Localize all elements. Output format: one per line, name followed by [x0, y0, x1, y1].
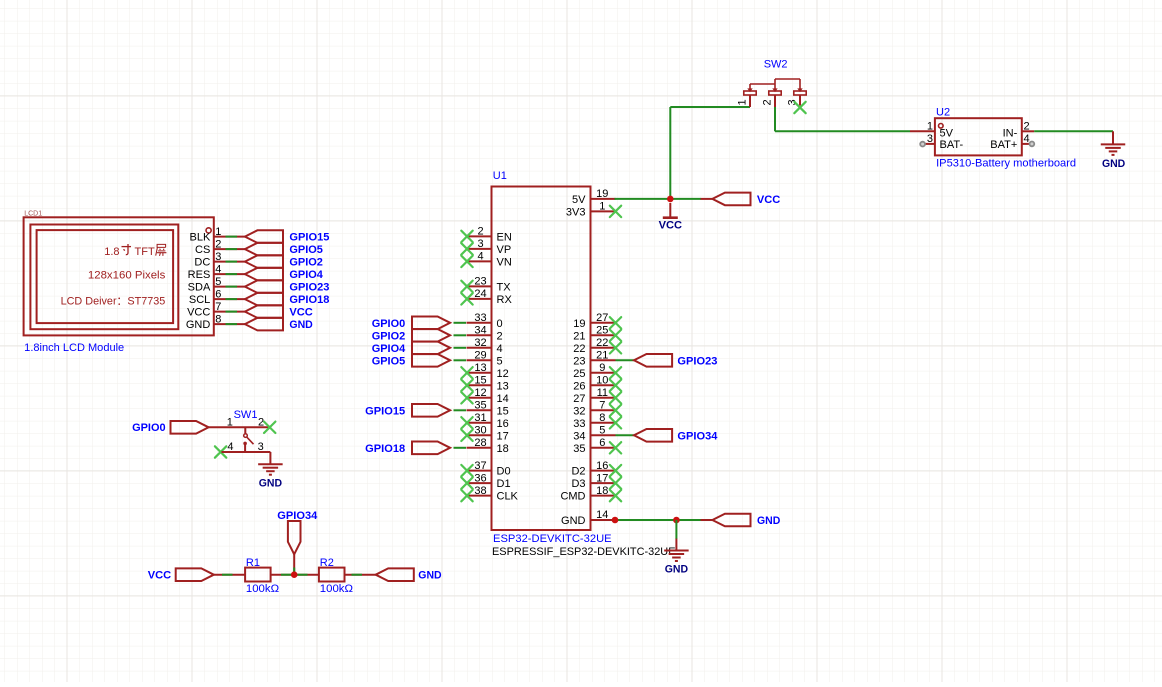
svg-text:D1: D1 — [497, 478, 511, 490]
svg-text:GPIO23: GPIO23 — [289, 282, 329, 294]
net flag VCC — [148, 568, 214, 581]
svg-text:BAT+: BAT+ — [990, 139, 1017, 151]
wire junction up to SW2 pin 1 — [669, 107, 671, 199]
wire 5V pin to VCC flag — [615, 198, 702, 200]
svg-text:36: 36 — [474, 472, 486, 484]
U1 pin 7 (32) — [573, 400, 621, 418]
svg-text:5: 5 — [497, 355, 503, 367]
svg-text:DC: DC — [194, 257, 210, 269]
wire R1 to junction — [271, 574, 295, 576]
svg-text:VCC: VCC — [148, 570, 171, 582]
svg-text:21: 21 — [596, 350, 608, 362]
svg-text:GPIO0: GPIO0 — [132, 422, 166, 434]
IC U2 IP5310 body — [935, 118, 1022, 155]
wire R2 to GND flag — [345, 574, 376, 576]
U1 pin 25 (21) — [573, 325, 621, 343]
svg-text:RES: RES — [188, 269, 211, 281]
svg-text:GPIO0: GPIO0 — [372, 318, 406, 330]
net flag GPIO5 — [372, 354, 450, 367]
U2 pin 2 (IN-) — [1003, 120, 1035, 139]
svg-text:19: 19 — [573, 318, 585, 330]
junction at U1 GND pin — [612, 517, 619, 524]
wire junction to R2 — [294, 574, 319, 576]
net flag GPIO18 — [245, 293, 330, 306]
switch SW2 — [744, 79, 806, 107]
svg-text:38: 38 — [474, 485, 486, 497]
svg-text:GPIO4: GPIO4 — [372, 343, 406, 355]
svg-text:GPIO2: GPIO2 — [372, 330, 406, 342]
svg-text:17: 17 — [497, 430, 509, 442]
LCD1 pin 4 (RES) — [188, 263, 245, 281]
svg-text:GPIO2: GPIO2 — [289, 257, 323, 269]
U2 pin 1 indicator circle — [939, 124, 944, 129]
U1 pin 38 (CLK) — [461, 485, 518, 503]
svg-text:15: 15 — [474, 375, 486, 387]
svg-text:26: 26 — [573, 380, 585, 392]
net flag GPIO2 — [372, 329, 450, 342]
wire — [454, 409, 467, 411]
svg-text:34: 34 — [573, 430, 585, 442]
LCD1 pin 1 indicator circle — [206, 228, 211, 233]
svg-text:5V: 5V — [572, 194, 586, 206]
U1 pin 12 (14) — [461, 387, 508, 405]
ground symbol under SW1 — [258, 452, 283, 489]
svg-text:21: 21 — [573, 330, 585, 342]
net flag VCC — [245, 305, 313, 318]
U1 pin 28 (18) — [467, 437, 509, 455]
wire GPIO0 to SW1 — [209, 426, 268, 428]
wire GND pin to GND flag — [614, 519, 701, 521]
svg-text:LCD1: LCD1 — [24, 211, 42, 218]
net flag GPIO2 — [245, 255, 323, 268]
svg-text:SW2: SW2 — [764, 59, 788, 71]
U2 pin 1 (5V) — [910, 120, 954, 139]
svg-text:CLK: CLK — [497, 491, 519, 503]
svg-text:7: 7 — [599, 400, 605, 412]
net flag GND — [712, 514, 780, 527]
svg-text:EN: EN — [497, 231, 512, 243]
wire U2 IN- to ground — [1034, 130, 1113, 132]
svg-text:VCC: VCC — [757, 194, 780, 206]
svg-text:2: 2 — [1024, 120, 1030, 132]
wire — [226, 298, 238, 300]
net flag GPIO23 — [634, 354, 717, 367]
svg-text:14: 14 — [497, 393, 509, 405]
wire down to ground — [675, 520, 677, 539]
U1 pin 32 (4) — [467, 337, 503, 355]
U1 pin 8 (33) — [573, 412, 621, 430]
svg-text:8: 8 — [215, 313, 221, 325]
svg-text:100kΩ: 100kΩ — [320, 583, 353, 595]
U1 pin 24 (RX) — [461, 288, 512, 306]
wire — [454, 447, 467, 449]
svg-text:6: 6 — [215, 288, 221, 300]
wire — [226, 286, 238, 288]
net flag GPIO4 — [372, 342, 450, 355]
svg-text:13: 13 — [497, 380, 509, 392]
U1 pin 1 (3V3) — [566, 201, 621, 219]
U1 pin 37 (D0) — [461, 460, 510, 478]
U1 pin 33 (0) — [467, 312, 503, 330]
U1 pin 18 (CMD) — [560, 485, 621, 503]
svg-text:D3: D3 — [571, 478, 585, 490]
svg-text:17: 17 — [596, 472, 608, 484]
svg-text:GND: GND — [665, 564, 688, 576]
svg-text:1: 1 — [227, 416, 233, 428]
wire SW2 pin2 down — [774, 107, 776, 131]
net flag GPIO23 — [245, 280, 330, 293]
svg-text:33: 33 — [573, 418, 585, 430]
U1 pin 4 (VN) — [461, 251, 512, 269]
svg-text:23: 23 — [573, 355, 585, 367]
svg-text:GND: GND — [289, 319, 312, 331]
svg-text:16: 16 — [596, 460, 608, 472]
svg-text:3: 3 — [477, 238, 483, 250]
svg-text:32: 32 — [474, 337, 486, 349]
svg-text:CMD: CMD — [560, 491, 585, 503]
svg-text:24: 24 — [474, 288, 486, 300]
svg-text:GND: GND — [757, 515, 780, 527]
svg-text:1: 1 — [215, 226, 221, 238]
svg-text:30: 30 — [474, 425, 486, 437]
net flag GPIO5 — [245, 243, 323, 256]
U1 pin 9 (25) — [573, 362, 621, 380]
svg-text:22: 22 — [596, 337, 608, 349]
svg-text:27: 27 — [573, 393, 585, 405]
svg-text:23: 23 — [474, 276, 486, 288]
U1 pin 36 (D1) — [461, 472, 510, 490]
svg-text:GND: GND — [418, 570, 441, 582]
svg-text:GPIO34: GPIO34 — [677, 430, 718, 442]
U1 pin 17 (D3) — [571, 472, 621, 490]
net flag GPIO34 vertical — [277, 510, 318, 575]
U1 pin 6 (35) — [573, 437, 621, 455]
LCD1 pin 1 (BLK) — [190, 226, 245, 244]
svg-text:D2: D2 — [571, 466, 585, 478]
svg-text:VCC: VCC — [187, 307, 210, 319]
svg-text:8: 8 — [599, 412, 605, 424]
svg-text:BLK: BLK — [190, 232, 211, 244]
U1 pin 21 (23) — [573, 350, 615, 368]
svg-text:12: 12 — [497, 368, 509, 380]
resistor R1 — [245, 557, 279, 595]
LCD1 pin 6 (SCL) — [189, 288, 245, 306]
svg-text:VN: VN — [497, 256, 512, 268]
svg-text:VP: VP — [497, 244, 512, 256]
svg-text:GPIO5: GPIO5 — [372, 355, 406, 367]
U1 pin 10 (26) — [573, 375, 621, 393]
svg-text:37: 37 — [474, 460, 486, 472]
svg-text:TFT: TFT — [135, 246, 155, 258]
svg-text:LCD Deiver：ST7735: LCD Deiver：ST7735 — [61, 295, 166, 307]
svg-text:35: 35 — [573, 443, 585, 455]
U2 pin 4 (BAT+) — [990, 133, 1034, 151]
junction R divider — [291, 571, 298, 578]
svg-text:GND: GND — [561, 515, 586, 527]
svg-text:SW1: SW1 — [234, 409, 258, 421]
net flag GPIO15 — [245, 230, 330, 243]
svg-text:18: 18 — [497, 443, 509, 455]
svg-text:6: 6 — [599, 437, 605, 449]
svg-text:18: 18 — [596, 485, 608, 497]
svg-text:1: 1 — [599, 201, 605, 213]
svg-text:27: 27 — [596, 312, 608, 324]
junction VCC node — [667, 196, 674, 203]
svg-text:VCC: VCC — [659, 219, 682, 231]
svg-text:35: 35 — [474, 400, 486, 412]
net flag VCC — [712, 193, 780, 206]
svg-text:GND: GND — [1102, 158, 1125, 170]
net flag GPIO0 — [372, 317, 450, 330]
svg-text:D0: D0 — [497, 466, 511, 478]
wire — [226, 236, 238, 238]
svg-text:IP5310-Battery motherboard: IP5310-Battery motherboard — [936, 158, 1076, 170]
svg-text:IN-: IN- — [1003, 127, 1018, 139]
svg-text:ESPRESSIF_ESP32-DEVKITC-32UE: ESPRESSIF_ESP32-DEVKITC-32UE — [492, 546, 676, 558]
svg-text:GND: GND — [259, 477, 282, 489]
SW1 bottom wire — [222, 451, 271, 453]
LCD1 pin 5 (SDA) — [188, 276, 245, 294]
LCD1 pin 2 (CS) — [195, 238, 245, 256]
svg-text:GPIO18: GPIO18 — [365, 443, 405, 455]
svg-text:SCL: SCL — [189, 294, 210, 306]
no-connect SW1 pin 2 — [264, 422, 275, 433]
resistor R2 — [319, 557, 353, 595]
U1 pin 35 (15) — [467, 400, 509, 418]
net flag GPIO34 — [634, 429, 718, 442]
svg-text:25: 25 — [573, 368, 585, 380]
wire — [226, 261, 238, 263]
net flag GND — [376, 568, 442, 581]
svg-text:R1: R1 — [246, 557, 260, 569]
no-connect SW1 pin 4 — [215, 446, 226, 457]
svg-text:0: 0 — [497, 318, 503, 330]
svg-text:19: 19 — [596, 188, 608, 200]
U1 pin 27 (19) — [573, 312, 621, 330]
svg-text:2: 2 — [762, 99, 774, 105]
svg-text:12: 12 — [474, 387, 486, 399]
wire — [616, 359, 636, 361]
svg-text:14: 14 — [596, 509, 608, 521]
wire — [454, 359, 467, 361]
wire — [454, 347, 467, 349]
wire — [226, 273, 238, 275]
svg-text:15: 15 — [497, 405, 509, 417]
svg-text:1: 1 — [927, 120, 933, 132]
svg-text:U1: U1 — [493, 170, 507, 182]
svg-text:2: 2 — [215, 238, 221, 250]
svg-text:GPIO18: GPIO18 — [289, 294, 329, 306]
svg-text:33: 33 — [474, 312, 486, 324]
U1 pin 11 (27) — [573, 387, 621, 405]
svg-text:RX: RX — [497, 294, 513, 306]
svg-text:4: 4 — [497, 343, 503, 355]
U1 pin 31 (16) — [461, 412, 508, 430]
svg-text:7: 7 — [215, 301, 221, 313]
label 1.8 cun TFT screen — [104, 244, 166, 258]
wire — [616, 434, 636, 436]
svg-text:5: 5 — [215, 276, 221, 288]
IC U1 ESP32-DEVKITC-32UE body — [492, 187, 591, 531]
svg-text:16: 16 — [497, 418, 509, 430]
svg-text:TX: TX — [497, 281, 512, 293]
net flag GPIO0 — [132, 421, 209, 434]
power symbol VCC — [659, 203, 682, 231]
U1 pin 2 (EN) — [461, 226, 512, 244]
wire — [226, 248, 238, 250]
U1 pin 23 (TX) — [461, 276, 511, 294]
U1 pin 30 (17) — [461, 425, 508, 443]
U1 pin 19 (5V) — [572, 188, 615, 206]
svg-text:3: 3 — [215, 251, 221, 263]
svg-text:100kΩ: 100kΩ — [246, 583, 279, 595]
svg-text:1: 1 — [737, 99, 749, 105]
svg-text:10: 10 — [596, 375, 608, 387]
no-connect SW2 pin 3 — [794, 102, 805, 113]
svg-text:GPIO4: GPIO4 — [289, 269, 323, 281]
LCD1 pin 7 (VCC) — [187, 301, 245, 319]
wire SW2 pin1 horizontal — [670, 106, 750, 108]
LCD1 pin 3 (DC) — [194, 251, 245, 269]
svg-text:R2: R2 — [320, 557, 334, 569]
svg-text:3: 3 — [927, 133, 933, 145]
wire — [226, 323, 238, 325]
net flag GPIO15 — [365, 404, 450, 417]
U1 pin 22 (22) — [573, 337, 621, 355]
net flag GND — [245, 318, 313, 331]
svg-text:BAT-: BAT- — [940, 139, 964, 151]
svg-text:4: 4 — [477, 251, 483, 263]
U1 pin 14 (GND) — [561, 509, 615, 527]
wire SW2 pin2 to U2 5V — [775, 130, 910, 132]
svg-text:2: 2 — [497, 330, 503, 342]
svg-text:GPIO34: GPIO34 — [277, 510, 318, 522]
svg-text:U2: U2 — [936, 107, 950, 119]
U1 pin 5 (34) — [573, 425, 615, 443]
svg-text:13: 13 — [474, 362, 486, 374]
svg-text:29: 29 — [474, 350, 486, 362]
svg-text:5: 5 — [599, 425, 605, 437]
svg-text:11: 11 — [597, 387, 608, 399]
push button SW1 — [243, 427, 253, 452]
wire — [454, 322, 467, 324]
svg-text:9: 9 — [599, 362, 605, 374]
svg-text:GPIO15: GPIO15 — [289, 232, 329, 244]
svg-text:34: 34 — [474, 325, 486, 337]
svg-text:VCC: VCC — [289, 307, 312, 319]
U2 pin 3 (BAT-) — [920, 133, 963, 151]
svg-text:GPIO5: GPIO5 — [289, 244, 323, 256]
svg-text:SDA: SDA — [188, 282, 211, 294]
svg-text:3V3: 3V3 — [566, 206, 586, 218]
wire — [454, 334, 467, 336]
wire — [226, 311, 238, 313]
U1 pin 3 (VP) — [461, 238, 511, 256]
U1 pin 13 (12) — [461, 362, 508, 380]
svg-text:32: 32 — [573, 405, 585, 417]
svg-text:GPIO23: GPIO23 — [677, 355, 717, 367]
svg-text:4: 4 — [215, 263, 221, 275]
svg-text:31: 31 — [474, 412, 486, 424]
junction GND node — [673, 517, 680, 524]
U1 pin 16 (D2) — [571, 460, 621, 478]
svg-text:28: 28 — [474, 437, 486, 449]
net flag GPIO18 — [365, 442, 450, 455]
ground symbol right of U2 — [1101, 131, 1126, 170]
svg-text:1.8inch LCD Module: 1.8inch LCD Module — [24, 342, 124, 354]
svg-text:1.8: 1.8 — [104, 246, 119, 258]
svg-text:ESP32-DEVKITC-32UE: ESP32-DEVKITC-32UE — [493, 533, 612, 545]
svg-text:5V: 5V — [940, 127, 954, 139]
svg-text:GND: GND — [186, 319, 211, 331]
svg-text:22: 22 — [573, 343, 585, 355]
wire VCC to R1 — [214, 574, 245, 576]
U1 pin 29 (5) — [467, 350, 503, 368]
U1 pin 34 (2) — [467, 325, 503, 343]
U1 pin 15 (13) — [461, 375, 508, 393]
svg-text:2: 2 — [477, 226, 483, 238]
LCD module LCD1 body — [24, 217, 214, 335]
svg-text:2: 2 — [258, 417, 264, 429]
svg-text:GPIO15: GPIO15 — [365, 405, 405, 417]
svg-text:25: 25 — [596, 325, 608, 337]
ground symbol under U1 — [664, 539, 689, 576]
LCD1 pin 8 (GND) — [186, 313, 245, 331]
svg-text:CS: CS — [195, 244, 210, 256]
svg-text:128x160 Pixels: 128x160 Pixels — [88, 270, 166, 282]
net flag GPIO4 — [245, 268, 324, 281]
